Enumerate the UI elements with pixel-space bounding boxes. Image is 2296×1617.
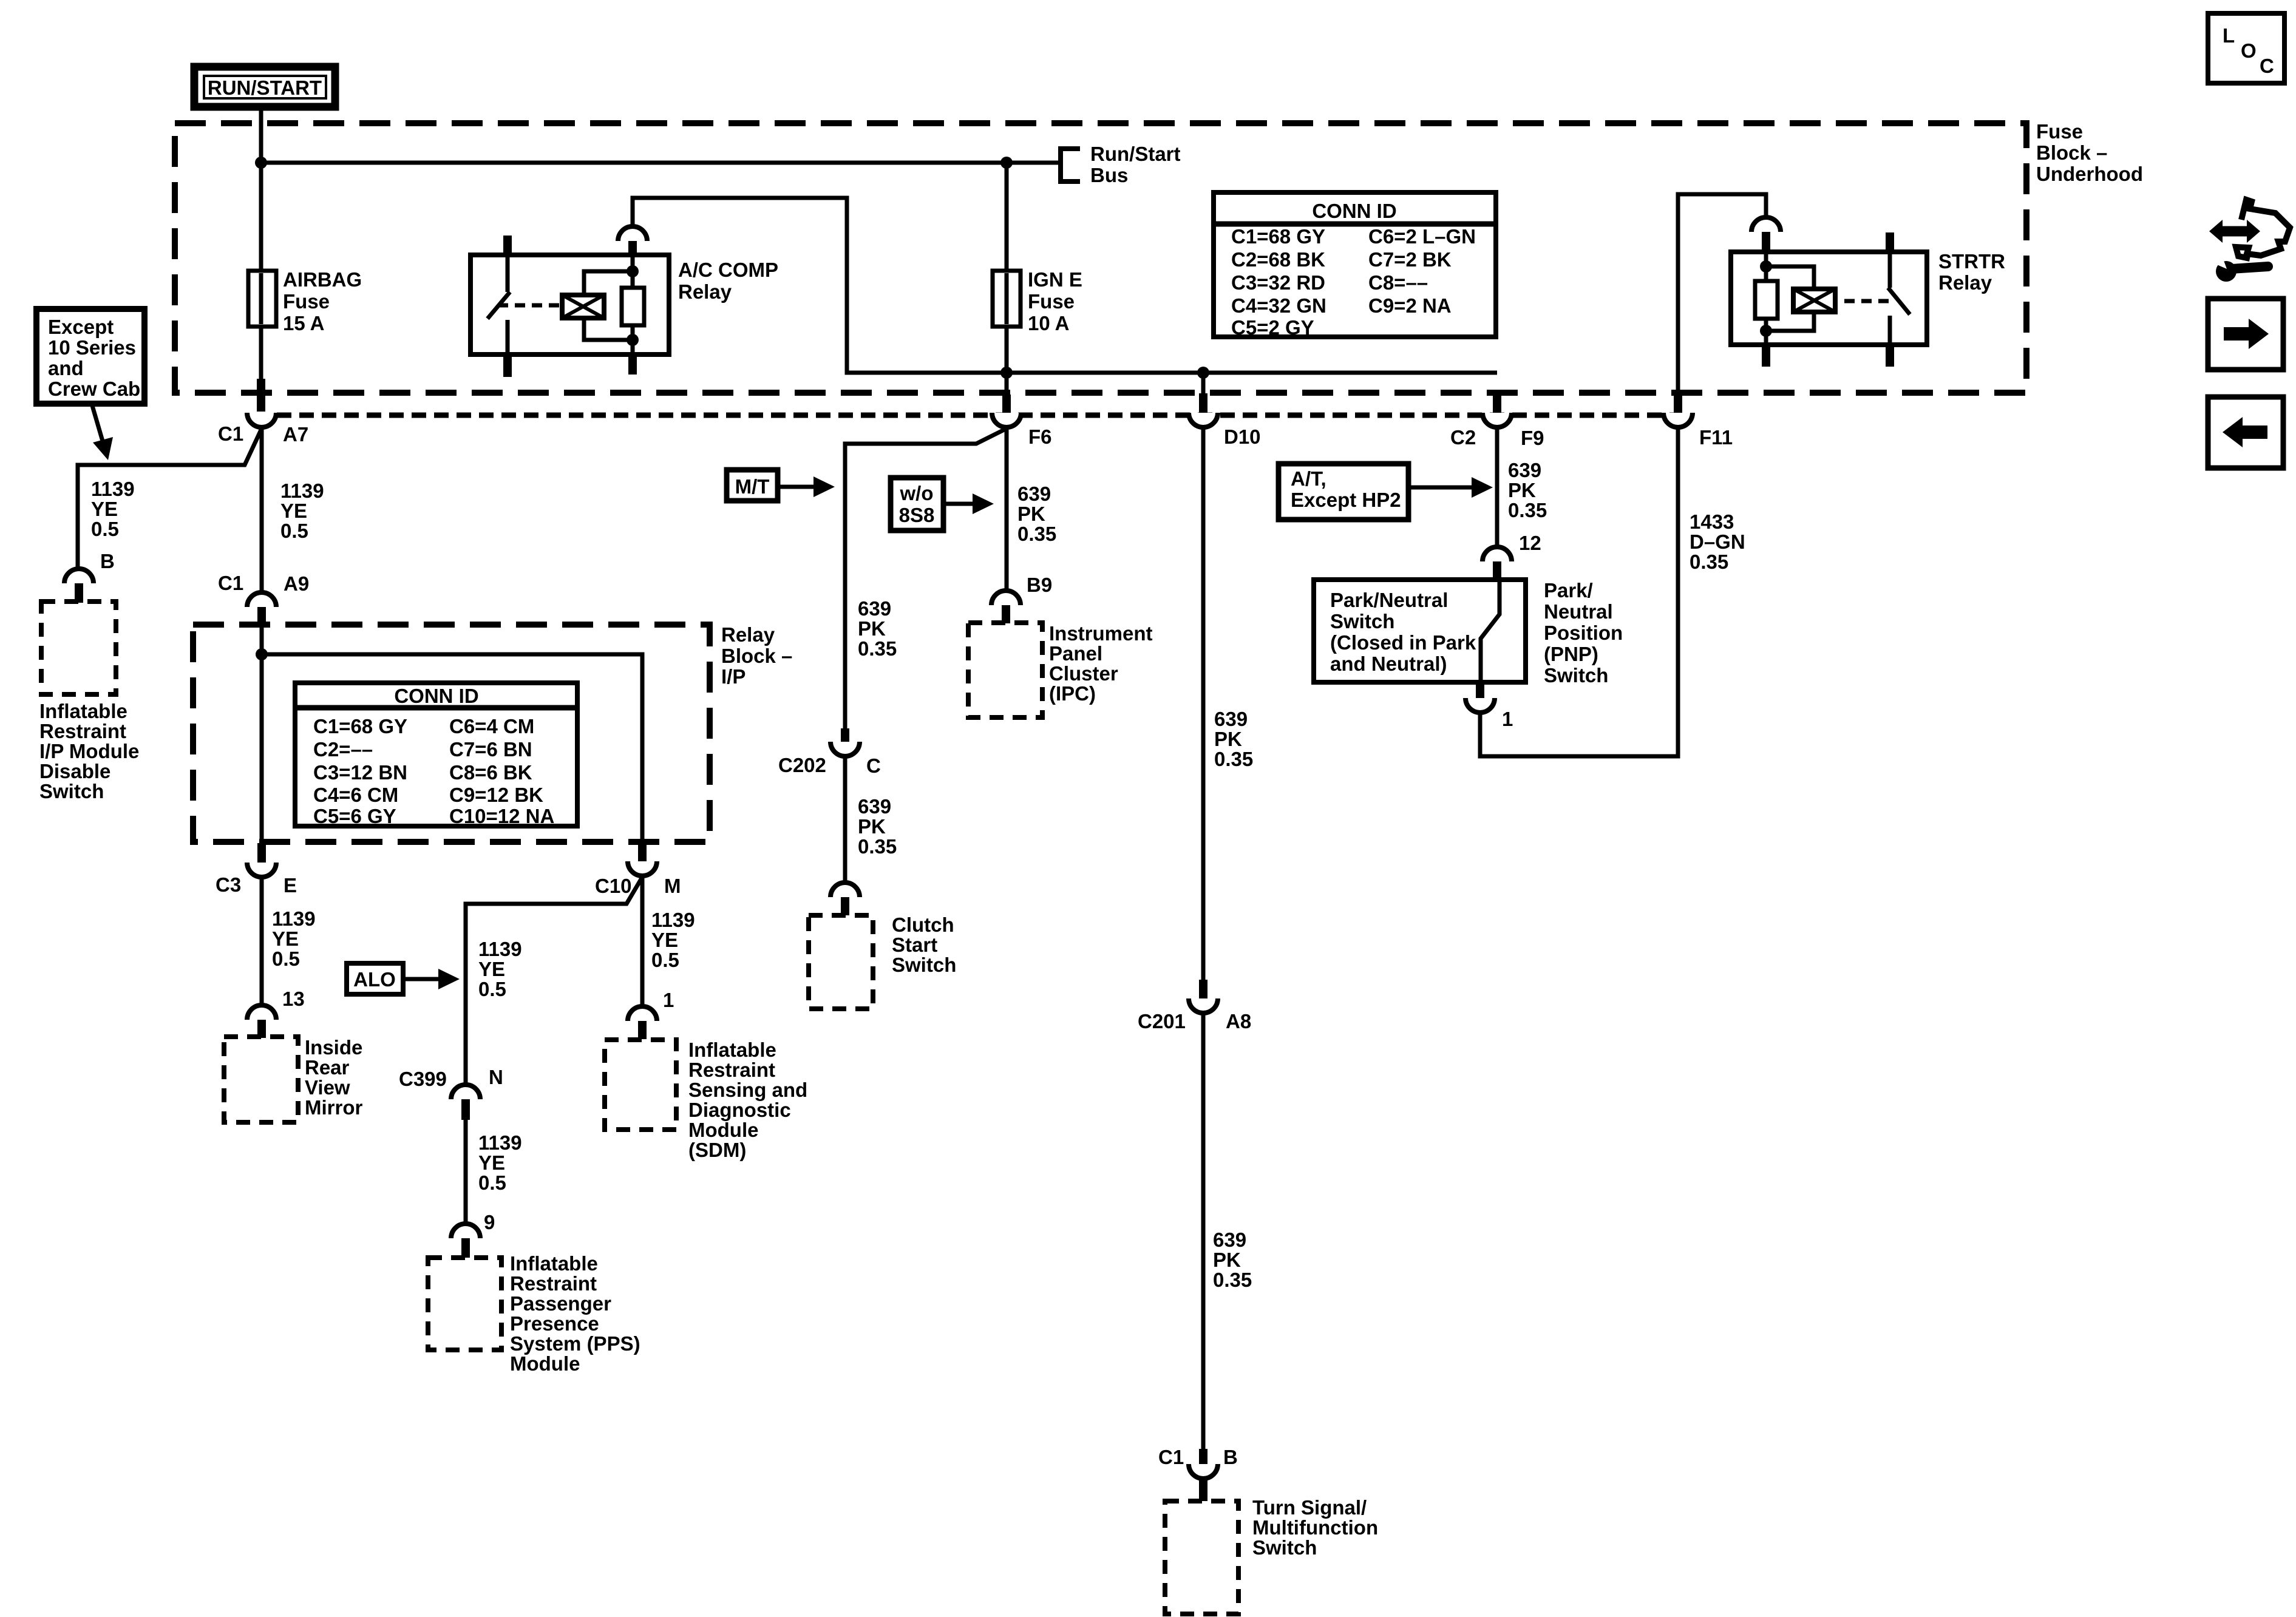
svg-text:C2=––: C2=–– — [313, 738, 373, 761]
A/C relay switch pin top stub — [503, 236, 512, 255]
svg-text:1139: 1139 — [478, 1131, 522, 1154]
Inflatable Restraint I/P Module Disable Switch label — [39, 700, 139, 802]
label C1 (turn signal) — [1158, 1446, 1184, 1468]
svg-text:Start: Start — [892, 934, 937, 956]
STRTR relay coil bottom lead — [1766, 311, 1814, 331]
svg-text:C1: C1 — [218, 422, 243, 445]
svg-text:YE: YE — [272, 927, 299, 950]
table: CONN ID (Fuse Block - Underhood) — [1214, 192, 1496, 339]
svg-text:Passenger: Passenger — [510, 1292, 611, 1315]
wire: AIRBAG fuse down to connector C1 A7 — [259, 327, 263, 379]
svg-text:Relay: Relay — [721, 623, 775, 646]
svg-text:Turn Signal/: Turn Signal/ — [1252, 1496, 1367, 1519]
svg-text:C4=6 CM: C4=6 CM — [313, 784, 398, 806]
wire: branch from F6 to clutch start switch (M/T) — [845, 429, 1007, 728]
wire label 1139 YE 0.5 (PPS branch upper) — [478, 938, 522, 1000]
Turn Signal / Multifunction Switch label — [1252, 1496, 1378, 1559]
svg-text:0.35: 0.35 — [858, 835, 897, 858]
switch: Park/Neutral Switch body — [1314, 580, 1526, 682]
svg-text:B: B — [100, 550, 115, 572]
wire: STRTR relay coil feed from F11 — [1678, 194, 1766, 393]
svg-text:PK: PK — [1508, 479, 1536, 501]
connector F11 — [1663, 393, 1693, 427]
svg-text:Instrument: Instrument — [1049, 622, 1153, 645]
A/C relay coil (winding box) — [562, 295, 604, 318]
svg-text:Restraint: Restraint — [39, 720, 126, 742]
connector C1/B at turn signal switch — [1189, 1449, 1218, 1501]
svg-text:C5=2 GY: C5=2 GY — [1231, 316, 1314, 339]
svg-text:1139: 1139 — [478, 938, 522, 960]
STRTR relay actuator dashed link — [1844, 299, 1895, 303]
connector C1/A9 (harness into relay block) — [247, 592, 276, 628]
node: STRTR coil-resistor bottom junction — [1760, 325, 1772, 337]
svg-text:Module: Module — [688, 1119, 758, 1141]
svg-text:I/P: I/P — [721, 665, 746, 688]
label B (disable switch pin) — [100, 550, 115, 572]
icon: diagnostic hand-wrench symbol — [2209, 200, 2290, 282]
svg-text:(PNP): (PNP) — [1544, 643, 1598, 665]
A/C relay coil bottom lead — [584, 318, 633, 340]
wire: PNP pin 1 to F11 — [1480, 395, 1678, 756]
label A7 — [283, 423, 308, 446]
svg-text:A/T,: A/T, — [1291, 467, 1326, 490]
Run/Start Bus label — [1090, 143, 1181, 186]
arrow from Except note to wire — [92, 404, 113, 460]
label D10 — [1224, 425, 1261, 448]
svg-text:0.35: 0.35 — [1508, 499, 1547, 521]
label C399 — [399, 1068, 447, 1090]
svg-text:Diagnostic: Diagnostic — [688, 1099, 791, 1121]
Fuse Block - Underhood label — [2036, 120, 2143, 185]
node: A/C coil-resistor bottom junction — [627, 334, 639, 346]
label F6 — [1028, 425, 1052, 448]
wire: C399 N down to PPS pin 9 — [464, 1120, 468, 1224]
svg-text:12: 12 — [1519, 532, 1541, 554]
STRTR relay switch contacts and blade — [1888, 252, 1910, 345]
A/C COMP Relay label — [678, 259, 778, 303]
svg-text:E: E — [284, 874, 297, 897]
icon: forward arrow box — [2208, 299, 2283, 370]
svg-text:639: 639 — [1213, 1229, 1246, 1251]
svg-text:0.35: 0.35 — [1214, 748, 1253, 770]
svg-text:Fuse: Fuse — [283, 290, 330, 313]
svg-text:F6: F6 — [1028, 425, 1052, 448]
svg-text:C10=12 NA: C10=12 NA — [449, 805, 554, 827]
component: Inflatable Restraint Sensing and Diagnostic Module (SDM) (dashed box) — [605, 1040, 676, 1130]
wire label 639 PK 0.35 (D10 wire) — [1214, 708, 1253, 770]
svg-text:Switch: Switch — [892, 954, 956, 976]
svg-text:Presence: Presence — [510, 1312, 599, 1335]
svg-text:C202: C202 — [778, 754, 826, 776]
svg-text:C2=68 BK: C2=68 BK — [1231, 248, 1325, 271]
svg-text:RUN/START: RUN/START — [208, 76, 322, 99]
svg-text:13: 13 — [282, 988, 305, 1010]
Except 10 Series and Crew Cab note box — [36, 309, 144, 404]
svg-text:N: N — [489, 1066, 503, 1088]
svg-text:A9: A9 — [284, 572, 309, 595]
svg-text:and: and — [48, 357, 84, 379]
component: Inflatable Restraint I/P Module Disable Switch (dashed box) — [41, 602, 116, 694]
svg-text:C4=32 GN: C4=32 GN — [1231, 294, 1326, 317]
svg-text:0.5: 0.5 — [280, 520, 308, 542]
svg-text:C1=68 GY: C1=68 GY — [313, 715, 407, 737]
wire: C201 A8 down to turn signal switch C1 B — [1201, 1013, 1206, 1449]
svg-text:I/P Module: I/P Module — [39, 740, 139, 762]
svg-text:Bus: Bus — [1090, 164, 1128, 186]
wire: Run/Start Bus horizontal — [261, 161, 1061, 165]
svg-text:(SDM): (SDM) — [688, 1139, 746, 1161]
svg-text:C10: C10 — [595, 875, 632, 897]
svg-text:Multifunction: Multifunction — [1252, 1516, 1378, 1539]
wire label 1139 YE 0.5 (SDM wire) — [651, 909, 695, 971]
svg-text:IGN E: IGN E — [1028, 268, 1082, 291]
svg-text:Fuse: Fuse — [2036, 120, 2083, 143]
svg-text:B9: B9 — [1027, 574, 1052, 596]
svg-text:0.35: 0.35 — [1017, 523, 1056, 545]
svg-text:Rear: Rear — [305, 1056, 350, 1079]
svg-text:YE: YE — [91, 498, 118, 520]
svg-text:Neutral: Neutral — [1544, 600, 1613, 623]
connector 1 at PNP switch bottom — [1466, 682, 1495, 713]
label 9 (PPS pin) — [484, 1211, 495, 1233]
svg-text:Inflatable: Inflatable — [39, 700, 127, 722]
svg-text:C6=4 CM: C6=4 CM — [449, 715, 534, 737]
icon: LOC reference box — [2208, 13, 2284, 83]
table: CONN ID (Relay Block - I/P) — [295, 683, 577, 827]
wire: IGN E fuse down to F6 — [1005, 327, 1009, 395]
svg-text:639: 639 — [1017, 483, 1051, 505]
connector C10/M (relay block bottom) — [628, 840, 657, 876]
icon: back arrow box — [2208, 397, 2283, 468]
svg-text:Park/: Park/ — [1544, 579, 1593, 602]
Park/Neutral Position (PNP) Switch label — [1544, 579, 1623, 686]
w/o 8S8 option tag box — [891, 478, 943, 531]
svg-text:AIRBAG: AIRBAG — [283, 268, 362, 291]
A/C relay switch pin bottom stub — [503, 354, 512, 377]
component: Instrument Panel Cluster (IPC) (dashed box) — [968, 623, 1042, 717]
connector C1/A7 (fuse block to harness) — [247, 379, 276, 427]
svg-text:Module: Module — [510, 1352, 580, 1375]
svg-text:C2: C2 — [1450, 426, 1476, 449]
connector 13 at Inside Rear View Mirror — [247, 1005, 276, 1038]
wire label 1139 YE 0.5 (disable switch branch) — [91, 478, 135, 540]
label F11 — [1699, 426, 1733, 449]
wire label 1433 D-GN 0.35 (F11 wire) — [1690, 510, 1745, 573]
svg-text:Underhood: Underhood — [2036, 163, 2143, 185]
svg-text:YE: YE — [280, 500, 307, 522]
svg-text:(Closed in Park: (Closed in Park — [1330, 631, 1476, 654]
svg-text:YE: YE — [478, 958, 505, 980]
svg-text:639: 639 — [1508, 459, 1541, 481]
arrow from M/T tag to wire — [778, 476, 835, 497]
label F9 — [1521, 427, 1544, 449]
STRTR relay coil top lead — [1766, 266, 1814, 289]
svg-text:C5=6 GY: C5=6 GY — [313, 805, 396, 827]
label C10 — [595, 875, 632, 897]
AIRBAG fuse label — [283, 268, 362, 334]
Fuse Block - Underhood dashed boundary — [175, 123, 2026, 393]
label 1 (PNP bottom pin) — [1502, 708, 1513, 730]
label 13 (mirror pin) — [282, 988, 305, 1010]
STRTR Relay label — [1938, 250, 2005, 294]
svg-text:CONN ID: CONN ID — [394, 685, 478, 707]
connector D10 — [1189, 393, 1218, 427]
label C3 — [216, 873, 241, 896]
svg-text:C3: C3 — [216, 873, 241, 896]
wire: C202 C down to clutch start switch — [843, 756, 847, 883]
STRTR relay coil pin bottom stub — [1762, 345, 1770, 367]
connector C201/A8 — [1189, 980, 1218, 1013]
svg-text:C6=2 L–GN: C6=2 L–GN — [1368, 225, 1476, 248]
A/T Except HP2 option tag box — [1279, 464, 1408, 520]
node: relay block feed junction — [256, 648, 268, 660]
svg-text:Switch: Switch — [1544, 664, 1608, 686]
svg-text:C9=12 BK: C9=12 BK — [449, 784, 543, 806]
STRTR relay coil (winding box) — [1793, 289, 1835, 312]
svg-text:Sensing and: Sensing and — [688, 1079, 807, 1101]
svg-text:C: C — [2260, 55, 2274, 77]
svg-text:C8=––: C8=–– — [1368, 271, 1428, 294]
svg-text:Panel: Panel — [1049, 642, 1102, 665]
wire: D10 stem from junction — [1201, 373, 1206, 395]
Run/Start Bus bracket symbol — [1058, 146, 1080, 184]
wire: IGN E fuse feed from bus — [1005, 163, 1009, 271]
svg-text:639: 639 — [858, 597, 891, 620]
connector 9 at PPS module — [451, 1224, 480, 1258]
Clutch Start Switch label — [892, 914, 956, 976]
svg-text:L: L — [2223, 24, 2235, 47]
wire: F9 down to PNP switch pin 12 — [1495, 427, 1500, 548]
label E — [284, 874, 297, 897]
label B9 — [1027, 574, 1052, 596]
svg-text:A8: A8 — [1226, 1010, 1251, 1032]
wire label 1139 YE 0.5 (PPS branch lower) — [478, 1131, 522, 1194]
svg-text:Restraint: Restraint — [510, 1272, 597, 1295]
svg-text:1139: 1139 — [651, 909, 695, 931]
svg-text:C1=68 GY: C1=68 GY — [1231, 225, 1325, 248]
svg-text:10 Series: 10 Series — [48, 336, 136, 359]
wire label 639 PK 0.35 (clutch branch upper) — [858, 597, 897, 660]
svg-text:Restraint: Restraint — [688, 1059, 775, 1081]
label C201 — [1138, 1010, 1186, 1032]
A/C relay coil top lead — [584, 271, 633, 295]
IGN E fuse label — [1028, 268, 1082, 334]
svg-text:Disable: Disable — [39, 760, 110, 782]
svg-text:PK: PK — [1214, 728, 1242, 750]
svg-text:1: 1 — [1502, 708, 1513, 730]
A/C relay internal resistor — [622, 255, 644, 354]
svg-text:Block –: Block – — [721, 645, 792, 667]
arrow from w/o 8S8 tag to wire — [943, 493, 994, 514]
wire: C3 E down to mirror pin 13 — [260, 877, 264, 1005]
svg-text:9: 9 — [484, 1211, 495, 1233]
svg-text:C1: C1 — [218, 572, 243, 594]
arrow from ALO tag to wire — [403, 969, 460, 989]
svg-text:M/T: M/T — [735, 475, 770, 498]
svg-text:0.35: 0.35 — [1213, 1269, 1252, 1291]
Park/Neutral switch blade — [1481, 580, 1500, 682]
IPC label — [1049, 622, 1153, 705]
svg-text:D10: D10 — [1224, 425, 1261, 448]
connector C202/C — [830, 728, 860, 756]
svg-text:Except HP2: Except HP2 — [1291, 489, 1401, 511]
label N — [489, 1066, 503, 1088]
svg-text:C3=32 RD: C3=32 RD — [1231, 271, 1325, 294]
Relay Block - I/P label — [721, 623, 792, 688]
STRTR relay coil pin top stub and connector arc — [1751, 217, 1781, 252]
node: STRTR coil-resistor top junction — [1760, 260, 1772, 273]
svg-text:PK: PK — [1213, 1249, 1241, 1271]
svg-text:0.5: 0.5 — [478, 1171, 506, 1194]
svg-text:F11: F11 — [1699, 426, 1733, 449]
svg-text:Switch: Switch — [1330, 610, 1394, 632]
label C202 — [778, 754, 826, 776]
svg-text:M: M — [664, 875, 681, 897]
svg-text:Mirror: Mirror — [305, 1096, 363, 1119]
svg-text:Clutch: Clutch — [892, 914, 954, 936]
label B (turn signal) — [1223, 1446, 1238, 1468]
relay: STRTR Relay body — [1731, 252, 1927, 345]
svg-text:Fuse: Fuse — [1028, 290, 1075, 313]
label 1 (SDM pin) — [663, 989, 674, 1011]
svg-text:Cluster: Cluster — [1049, 662, 1118, 685]
svg-text:ALO: ALO — [353, 968, 396, 991]
svg-text:Relay: Relay — [1938, 271, 1992, 294]
component: Turn Signal / Multifunction Switch (dashed box) — [1165, 1501, 1238, 1614]
label A9 — [284, 572, 309, 595]
svg-text:and Neutral): and Neutral) — [1330, 653, 1447, 675]
wire: C10 M down to SDM pin 1 — [640, 876, 645, 1006]
connector at clutch start switch — [830, 883, 860, 915]
wire label 639 PK 0.35 (IPC wire) — [1017, 483, 1056, 545]
svg-text:0.5: 0.5 — [478, 978, 506, 1000]
connector F6 — [992, 395, 1021, 427]
svg-text:CONN ID: CONN ID — [1312, 200, 1396, 222]
svg-text:YE: YE — [651, 929, 678, 951]
svg-text:Switch: Switch — [1252, 1536, 1317, 1559]
wire label 1139 YE 0.5 (mirror wire) — [272, 907, 316, 970]
wire: D10 down to C201 A8 — [1201, 427, 1206, 980]
svg-text:0.35: 0.35 — [858, 637, 897, 660]
svg-text:B: B — [1223, 1446, 1238, 1468]
wire: A7 down to C1 A9 — [260, 427, 264, 594]
fuse: IGN E Fuse 10 A — [993, 271, 1021, 327]
PPS Module label — [510, 1252, 640, 1375]
svg-text:C7=6 BN: C7=6 BN — [449, 738, 532, 761]
wire label 639 PK 0.35 (turn signal wire) — [1213, 1229, 1252, 1291]
svg-text:Park/Neutral: Park/Neutral — [1330, 589, 1448, 611]
svg-text:0.35: 0.35 — [1690, 551, 1728, 573]
svg-text:View: View — [305, 1076, 350, 1099]
svg-text:0.5: 0.5 — [91, 518, 119, 540]
svg-text:C9=2 NA: C9=2 NA — [1368, 294, 1452, 317]
connector C2/F9 — [1483, 393, 1512, 427]
wire label 1139 YE 0.5 (A7-A9 wire) — [280, 480, 324, 542]
svg-text:Relay: Relay — [678, 280, 732, 303]
svg-text:System (PPS): System (PPS) — [510, 1332, 640, 1355]
svg-text:PK: PK — [1017, 503, 1045, 525]
STRTR relay switch pin bottom stub — [1886, 345, 1894, 367]
connector 1 at SDM — [628, 1006, 657, 1039]
label A8 — [1226, 1010, 1251, 1032]
STRTR relay switch pin top stub — [1886, 232, 1894, 252]
A/C relay switch contacts and blade — [487, 255, 510, 354]
connector B9 at IPC — [991, 591, 1021, 623]
A/C relay actuator dashed link — [498, 303, 562, 308]
svg-text:(IPC): (IPC) — [1049, 682, 1096, 705]
wire: branch from A7 to Inflatable Restraint disable switch — [78, 429, 262, 569]
label 12 (PNP pin) — [1519, 532, 1541, 554]
wire: branch from C10 M to C399 N — [466, 877, 642, 1086]
arrow from A/T tag to wire — [1408, 477, 1493, 498]
svg-text:A7: A7 — [283, 423, 308, 446]
svg-text:O: O — [2241, 39, 2257, 62]
svg-text:1433: 1433 — [1690, 510, 1734, 533]
node: A/C coil-resistor top junction — [627, 265, 639, 277]
svg-text:C201: C201 — [1138, 1010, 1186, 1032]
svg-text:1139: 1139 — [280, 480, 324, 502]
Park/Neutral Switch internal text — [1330, 589, 1476, 675]
svg-text:10 A: 10 A — [1028, 312, 1069, 334]
node: D10 feed junction — [1197, 367, 1209, 379]
node: bus / IGN E fuse junction — [1000, 157, 1013, 169]
node: IGN E / A-C relay coil feed junction — [1000, 367, 1013, 379]
wire: relay block horizontal feed to C10 — [262, 654, 642, 840]
wire: RUN/START feed down to Run/Start Bus — [259, 107, 263, 163]
svg-text:1139: 1139 — [91, 478, 135, 500]
STRTR relay internal resistor — [1755, 252, 1778, 345]
connector C399/N — [451, 1085, 480, 1120]
svg-text:1: 1 — [663, 989, 674, 1011]
svg-text:PK: PK — [858, 617, 886, 640]
fuse block connector row (dotted line) — [277, 413, 1682, 418]
svg-text:Run/Start: Run/Start — [1090, 143, 1181, 165]
wire label 639 PK 0.35 (PNP wire) — [1508, 459, 1547, 521]
connector C3/E (relay block bottom) — [247, 843, 276, 877]
wire label 639 PK 0.35 (clutch branch lower) — [858, 795, 897, 858]
svg-text:Crew Cab: Crew Cab — [48, 378, 140, 400]
Inside Rear View Mirror label — [305, 1036, 363, 1119]
svg-text:A/C COMP: A/C COMP — [678, 259, 778, 281]
Relay Block - I/P dashed boundary — [193, 625, 710, 842]
svg-text:C1: C1 — [1158, 1446, 1184, 1468]
connector 12 at PNP switch — [1483, 547, 1512, 581]
svg-text:Inside: Inside — [305, 1036, 362, 1059]
svg-text:Switch: Switch — [39, 780, 104, 802]
component: Clutch Start Switch (dashed box) — [809, 915, 873, 1009]
ALO option tag box — [347, 963, 403, 994]
label C1 (A7 connector) — [218, 422, 243, 445]
svg-text:C3=12 BN: C3=12 BN — [313, 761, 407, 784]
wire: A9 down through relay block to C3 E — [260, 628, 264, 844]
node: bus / AIRBAG fuse junction — [255, 157, 267, 169]
svg-text:639: 639 — [858, 795, 891, 818]
label M — [664, 875, 681, 897]
label C — [866, 754, 881, 777]
svg-text:F9: F9 — [1521, 427, 1544, 449]
svg-text:C399: C399 — [399, 1068, 447, 1090]
svg-text:639: 639 — [1214, 708, 1248, 730]
svg-text:0.5: 0.5 — [272, 947, 300, 970]
svg-text:0.5: 0.5 — [651, 949, 679, 971]
svg-text:YE: YE — [478, 1151, 505, 1174]
svg-text:1139: 1139 — [272, 907, 316, 930]
svg-text:STRTR: STRTR — [1938, 250, 2005, 273]
svg-text:C7=2 BK: C7=2 BK — [1368, 248, 1452, 271]
component: Inflatable Restraint Passenger Presence System (PPS) Module (dashed box) — [428, 1258, 501, 1350]
svg-text:15 A: 15 A — [283, 312, 324, 334]
M/T option tag box — [727, 470, 778, 501]
